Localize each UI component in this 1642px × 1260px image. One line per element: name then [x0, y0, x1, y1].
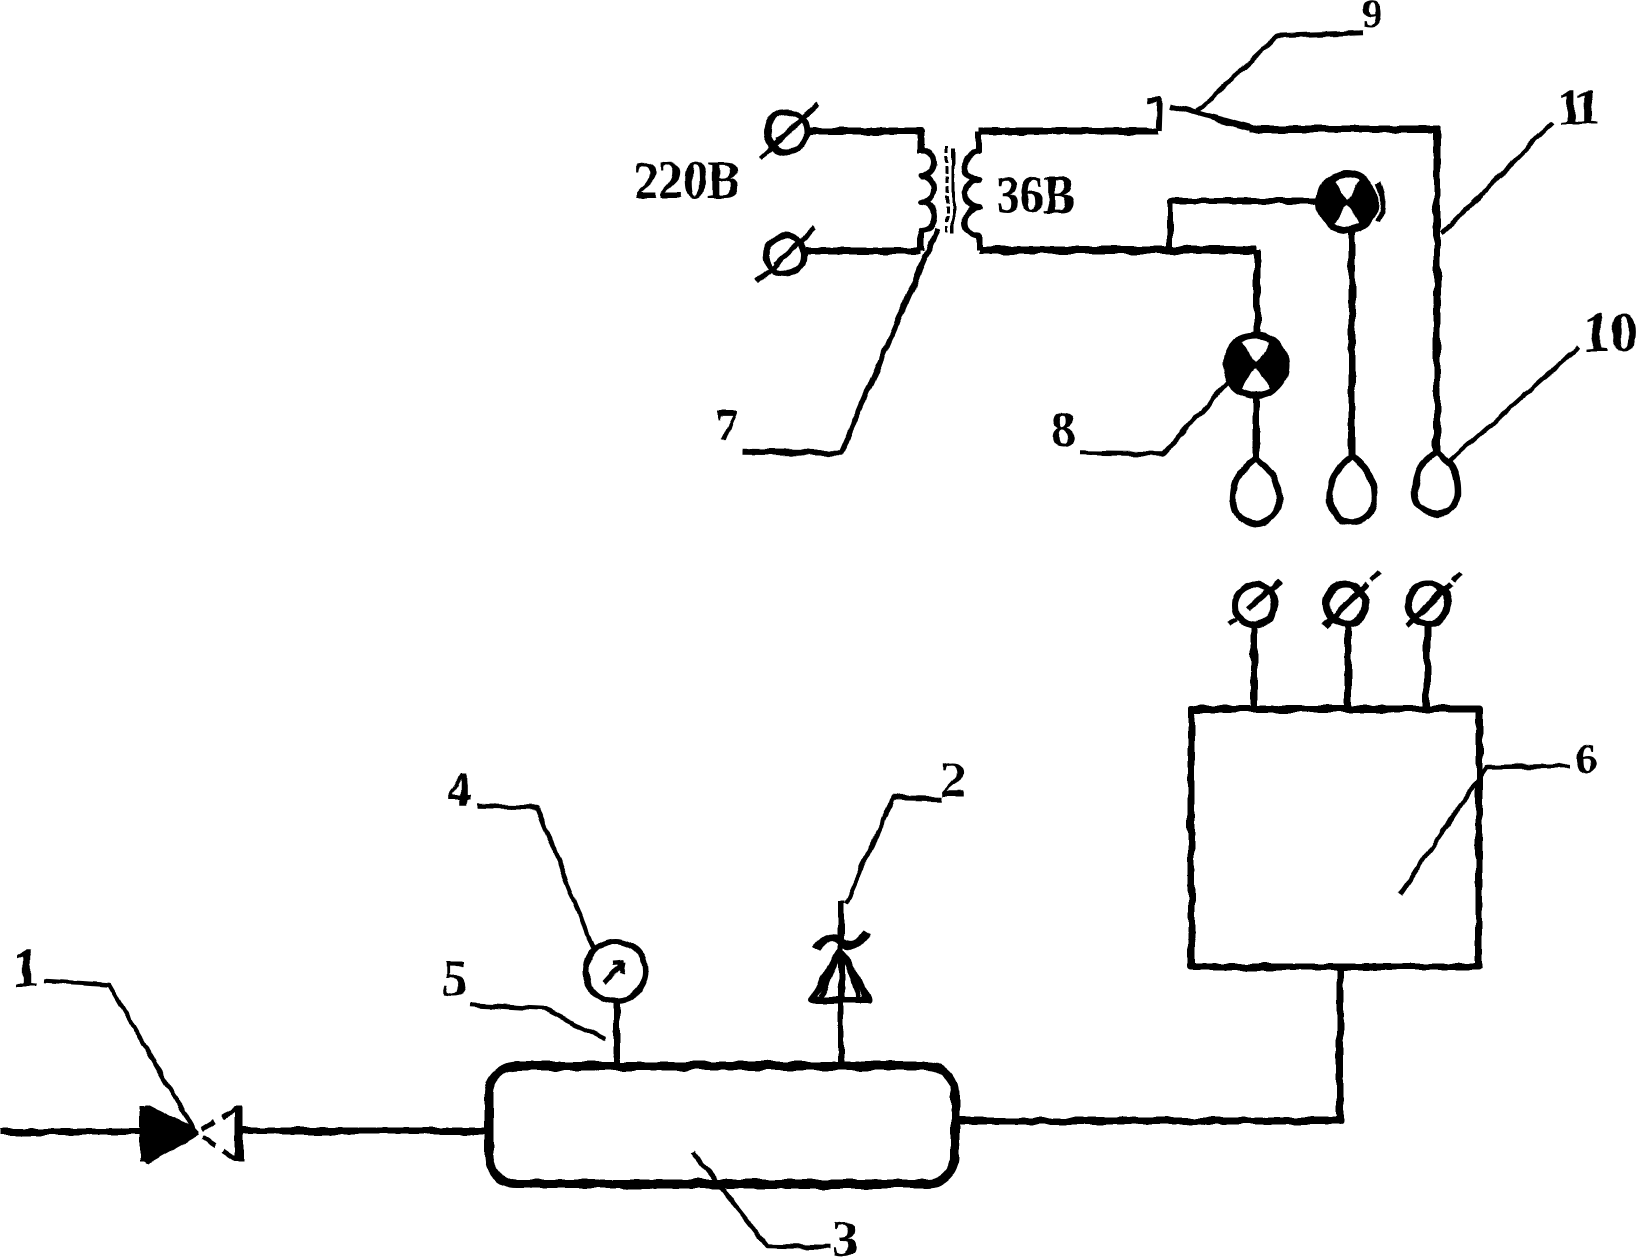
- drop nozzle middle: [1330, 456, 1374, 522]
- wire gauge stem: [614, 1001, 620, 1066]
- svg-text:3: 3: [832, 1211, 858, 1260]
- wire secondary top to switch: [979, 128, 1157, 135]
- label 9 with leader to switch: [1197, 0, 1382, 111]
- wire lamp right stem down: [1349, 230, 1356, 457]
- wire down to left lamp: [1254, 250, 1261, 338]
- label 220B primary voltage: [634, 150, 740, 210]
- terminal X1 top input: [760, 104, 818, 159]
- label 11 with leader to vertical wire: [1442, 79, 1598, 233]
- label 2 with leader to safety valve: [846, 752, 966, 904]
- label 8 with leader to left lamp: [1051, 382, 1228, 456]
- svg-text:4: 4: [446, 760, 471, 816]
- wire primary top: [808, 131, 921, 152]
- wire lamp left stem down: [1253, 395, 1260, 459]
- svg-text:7: 7: [716, 401, 738, 450]
- svg-text:11: 11: [1557, 79, 1598, 136]
- svg-text:2: 2: [940, 752, 966, 809]
- svg-text:6: 6: [1576, 737, 1597, 783]
- transformer T1 secondary winding: [965, 131, 979, 250]
- svg-text:9: 9: [1362, 0, 1382, 36]
- svg-text:36B: 36B: [996, 165, 1075, 225]
- label 5 with leader to gauge stem: [442, 950, 605, 1039]
- label 10 with leader to right drop: [1450, 302, 1638, 461]
- sensor circle left with slash: [1228, 581, 1280, 625]
- svg-text:5: 5: [442, 950, 468, 1007]
- pipe valve to tank: [243, 1128, 489, 1135]
- wire secondary bottom: [979, 246, 1257, 254]
- switch SA1 pivot post: [1147, 100, 1160, 131]
- label 7 with leader to transformer: [716, 228, 938, 453]
- wire primary bottom: [806, 248, 921, 255]
- label 6 with leader into box: [1400, 737, 1597, 894]
- transformer T1 primary winding: [921, 150, 935, 251]
- gauge 4: [586, 941, 646, 1001]
- svg-text:1: 1: [12, 937, 40, 999]
- inlet pipe left: [0, 1129, 142, 1136]
- tank 3: [489, 1066, 955, 1184]
- lamp HL1 left: [1226, 335, 1286, 395]
- sensor circle middle with slash: [1324, 573, 1379, 626]
- wire sensor left stem: [1251, 626, 1258, 709]
- wire sensor middle stem: [1345, 626, 1352, 709]
- svg-text:8: 8: [1051, 400, 1076, 456]
- lamp HL2 right: [1319, 174, 1383, 230]
- terminal X2 bottom input: [757, 228, 815, 282]
- label 1 with leader to valve: [12, 937, 196, 1134]
- drop nozzle left: [1233, 458, 1279, 524]
- svg-text:220B: 220B: [634, 150, 740, 210]
- svg-text:10: 10: [1582, 302, 1638, 364]
- label 3 with leader into tank: [693, 1152, 858, 1260]
- control box 6: [1191, 709, 1479, 967]
- transformer T1 core: [947, 146, 953, 233]
- pipe from tank to box: [956, 968, 1340, 1121]
- label 36B secondary voltage: [996, 165, 1075, 225]
- valve 1 body: [144, 1106, 239, 1162]
- drop nozzle right: [1415, 451, 1458, 514]
- sensor circle right with slash: [1406, 573, 1461, 626]
- wire sensor right stem: [1424, 625, 1431, 709]
- label 4 with leader to gauge: [446, 760, 593, 948]
- wire stub to right lamp: [1170, 201, 1319, 251]
- switch SA1 blade: [1171, 106, 1253, 129]
- safety valve 2: [811, 901, 869, 1066]
- wire from switch to corner and down to drop: [1250, 129, 1437, 454]
